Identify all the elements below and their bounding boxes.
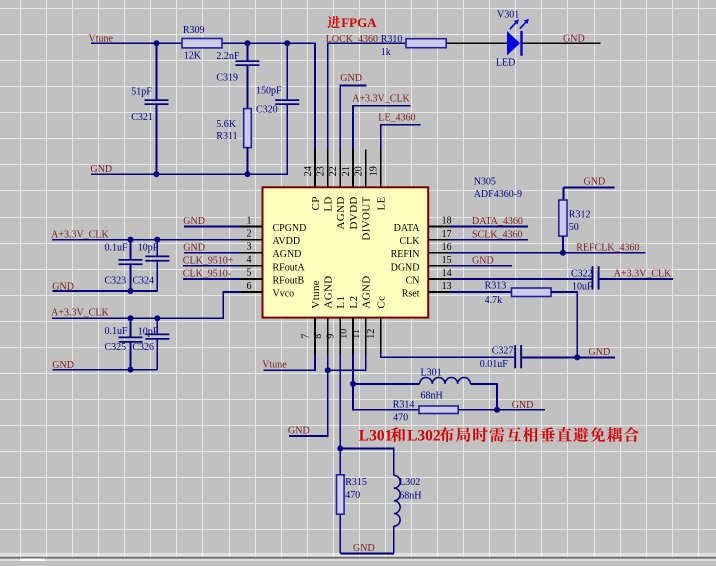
svg-text:23: 23	[316, 166, 327, 176]
svg-text:A+3.3V_CLK: A+3.3V_CLK	[614, 268, 672, 279]
annotation 进FPGA	[327, 16, 340, 28]
wire pin18	[450, 226, 528, 228]
svg-text:5.6K: 5.6K	[216, 119, 237, 130]
svg-text:AVDD: AVDD	[273, 236, 301, 247]
svg-text:L302: L302	[399, 477, 420, 488]
svg-text:R311: R311	[216, 131, 237, 142]
pin 23 LD	[327, 149, 329, 187]
svg-text:RFoutA: RFoutA	[273, 262, 306, 273]
pin 18 DATA	[428, 226, 450, 228]
svg-text:4: 4	[247, 255, 252, 266]
capacitor C324	[156, 240, 158, 291]
capacitor C321	[156, 43, 158, 174]
pin 6 Vvco	[241, 291, 263, 293]
svg-text:AGND: AGND	[273, 249, 302, 260]
wire Vtune/CP net	[91, 43, 315, 187]
svg-text:LE: LE	[376, 196, 388, 210]
capacitor C319	[247, 43, 249, 108]
svg-text:10uF: 10uF	[572, 282, 593, 293]
svg-text:CLK_9510-: CLK_9510-	[183, 269, 231, 280]
svg-text:15: 15	[442, 255, 452, 266]
svg-text:GND: GND	[584, 176, 606, 187]
pin 4 RFoutA	[241, 265, 263, 267]
svg-text:A+3.3V_CLK: A+3.3V_CLK	[51, 229, 109, 240]
svg-text:4.7k: 4.7k	[485, 295, 503, 306]
svg-text:20: 20	[354, 166, 365, 176]
svg-text:R313: R313	[485, 280, 507, 291]
svg-text:L301: L301	[421, 368, 442, 379]
svg-text:CPGND: CPGND	[273, 223, 307, 234]
svg-text:AGND: AGND	[361, 275, 373, 308]
svg-text:GND: GND	[512, 400, 534, 411]
svg-text:GND: GND	[353, 543, 375, 554]
wire GND rail 1	[52, 290, 157, 292]
wire GND rail top-left	[91, 105, 287, 174]
svg-text:L301: L301	[359, 428, 393, 445]
wire pin19 LE	[381, 125, 421, 188]
svg-text:150pF: 150pF	[256, 86, 282, 97]
wire pin21 DVDD	[353, 106, 411, 188]
wire pin14 to C322	[450, 278, 591, 280]
wire LD to R310	[328, 43, 406, 187]
pin 19 LE	[380, 149, 382, 187]
svg-text:C324: C324	[132, 276, 154, 287]
node C324 top junction	[154, 237, 160, 243]
svg-text:R310: R310	[381, 34, 403, 45]
resistor R315	[339, 449, 341, 554]
node C325 bottom junction	[128, 367, 134, 373]
svg-text:C319: C319	[216, 73, 238, 84]
svg-text:14: 14	[442, 268, 452, 279]
capacitor C323	[130, 240, 132, 291]
svg-text:DGND: DGND	[391, 262, 420, 273]
svg-text:AGND: AGND	[335, 196, 347, 229]
pin 8 AGND	[327, 318, 329, 355]
svg-text:2: 2	[247, 228, 252, 239]
svg-text:GND: GND	[589, 347, 611, 358]
wire R310 to LED	[446, 42, 507, 44]
pin 5 RFoutB	[241, 278, 263, 280]
pin 22 AGND	[339, 149, 341, 187]
IC N305 ADF4360-9	[263, 187, 429, 317]
node R312-REFIN junction	[560, 250, 566, 256]
pin 3 AGND	[241, 252, 263, 254]
node C323 top junction	[128, 237, 134, 243]
svg-text:N305: N305	[474, 177, 496, 188]
svg-text:5: 5	[247, 268, 252, 279]
wire pin3	[184, 252, 241, 254]
svg-text:10: 10	[338, 329, 349, 339]
svg-text:16: 16	[442, 242, 452, 253]
inductor L302	[340, 449, 394, 554]
wire pin10 L2 down	[353, 354, 419, 410]
pin 9 L1	[339, 318, 341, 355]
wire L301 right	[470, 384, 497, 410]
pin 14 CN	[428, 278, 450, 280]
wire C322 to A+3.3V_CLK	[600, 278, 673, 280]
pin 2 AVDD	[241, 239, 263, 241]
svg-text:L302: L302	[407, 428, 441, 445]
svg-text:GND: GND	[563, 34, 585, 45]
svg-text:C327: C327	[492, 345, 514, 356]
svg-text:11: 11	[351, 329, 362, 339]
svg-text:0.01uF: 0.01uF	[480, 359, 509, 370]
svg-text:LED: LED	[496, 58, 515, 69]
wire GND rail 2	[52, 369, 157, 371]
svg-text:CN: CN	[406, 275, 420, 286]
svg-text:GND: GND	[183, 242, 205, 253]
node pin8 junction	[325, 367, 331, 373]
pin 1 CPGND	[241, 226, 263, 228]
wire bottom GND rail	[340, 553, 394, 555]
svg-text:50: 50	[569, 222, 579, 233]
svg-text:R312: R312	[569, 210, 591, 221]
svg-text:R315: R315	[345, 477, 367, 488]
svg-text:DATA: DATA	[394, 223, 421, 234]
svg-text:10pF: 10pF	[138, 327, 159, 338]
pin 16 REFIN	[428, 252, 450, 254]
svg-text:C322: C322	[571, 268, 593, 279]
svg-text:A+3.3V_CLK: A+3.3V_CLK	[352, 94, 410, 105]
wire pin17	[450, 239, 528, 241]
svg-text:DIVOUT: DIVOUT	[361, 196, 373, 240]
svg-text:C320: C320	[256, 105, 278, 116]
svg-text:Cc: Cc	[376, 296, 388, 309]
wire R314 right to GND	[458, 409, 545, 411]
wire pin4	[183, 265, 241, 267]
svg-text:REFIN: REFIN	[391, 249, 420, 260]
svg-text:2.2nF: 2.2nF	[216, 51, 240, 62]
wire LED to GND	[523, 42, 601, 44]
svg-text:51pF: 51pF	[131, 87, 152, 98]
svg-text:22: 22	[328, 166, 339, 176]
svg-text:24: 24	[303, 166, 314, 176]
pin 15 DGND	[428, 265, 450, 267]
wire pin15	[450, 265, 512, 267]
svg-text:LE_4360: LE_4360	[378, 113, 415, 124]
svg-text:Vtune: Vtune	[310, 280, 322, 309]
svg-text:C325: C325	[105, 342, 127, 353]
svg-text:470: 470	[345, 490, 360, 501]
svg-text:18: 18	[442, 216, 452, 227]
wire pin12 Cc to C327	[381, 354, 514, 357]
svg-text:GND: GND	[340, 73, 362, 84]
svg-text:SCLK_4360: SCLK_4360	[472, 229, 523, 240]
svg-text:L1: L1	[335, 296, 347, 309]
node C323 bottom junction	[128, 288, 134, 294]
resistor R310	[406, 39, 446, 48]
LED V301	[507, 31, 520, 56]
svg-text:ADF4360-9: ADF4360-9	[474, 189, 522, 200]
svg-text:1k: 1k	[381, 47, 391, 58]
svg-text:Rset: Rset	[402, 289, 420, 300]
svg-text:21: 21	[341, 166, 352, 176]
wire pin9 L1 down	[339, 354, 341, 449]
svg-text:10pF: 10pF	[138, 243, 159, 254]
svg-text:19: 19	[369, 166, 380, 176]
pin 13 Rset	[428, 291, 450, 293]
wire pin16 REFIN	[450, 252, 646, 254]
pin 21 DVDD	[352, 149, 354, 187]
resistor R311	[244, 109, 252, 148]
wire R313 to C327 node	[551, 292, 577, 357]
svg-text:7: 7	[300, 334, 311, 339]
svg-text:CLK_9510+: CLK_9510+	[183, 256, 234, 267]
pin 24 CP	[314, 149, 316, 187]
svg-text:470: 470	[393, 413, 408, 424]
svg-text:68nH: 68nH	[421, 390, 443, 401]
pin 7 Vtune	[314, 318, 316, 355]
svg-text:R314: R314	[393, 399, 415, 410]
wire pin7 Vtune	[264, 354, 316, 370]
wire pin6 Vvco rail	[52, 292, 241, 318]
capacitor C322	[592, 266, 594, 289]
svg-text:C323: C323	[105, 276, 127, 287]
wire R312 top GND	[563, 188, 614, 201]
wire C327 to GND node	[522, 356, 615, 358]
resistor R309	[182, 39, 222, 48]
svg-text:A+3.3V_CLK: A+3.3V_CLK	[51, 307, 109, 318]
svg-text:68nH: 68nH	[399, 491, 421, 502]
svg-text:R309: R309	[183, 25, 205, 36]
wire pin2 AVDD rail	[52, 239, 241, 241]
node C321-GND junction	[154, 171, 160, 177]
sheet border	[0, 553, 716, 554]
node R314-L301 junction	[494, 407, 500, 413]
svg-text:CP: CP	[310, 196, 322, 210]
node C319 junction	[245, 40, 251, 46]
svg-text:13: 13	[442, 281, 452, 292]
wire pin5	[183, 278, 241, 280]
svg-text:C321: C321	[131, 112, 153, 123]
node C325 top junction	[128, 315, 134, 321]
svg-text:6: 6	[247, 281, 252, 292]
svg-text:CLK: CLK	[400, 236, 421, 247]
svg-text:GND: GND	[288, 426, 310, 437]
svg-text:C326: C326	[132, 342, 154, 353]
node pin9 junction	[337, 446, 343, 452]
resistor R312	[559, 200, 567, 236]
svg-text:FPGA: FPGA	[341, 15, 377, 30]
capacitor C327	[514, 345, 516, 368]
svg-text:RFoutB: RFoutB	[273, 275, 305, 286]
svg-text:V301: V301	[497, 10, 519, 21]
wire pin22 AGND	[340, 85, 366, 187]
svg-text:L2: L2	[348, 296, 360, 309]
pin 20 DIVOUT	[365, 149, 367, 187]
svg-text:DVDD: DVDD	[348, 196, 360, 229]
svg-text:1: 1	[247, 215, 252, 226]
svg-text:9: 9	[326, 334, 337, 339]
pin 12 Cc	[380, 318, 382, 355]
svg-text:3: 3	[247, 242, 252, 253]
capacitor C320	[286, 43, 288, 99]
wire pin1	[184, 226, 241, 228]
inductor L301	[353, 383, 420, 385]
svg-text:DATA_4360: DATA_4360	[472, 216, 523, 227]
svg-text:12: 12	[366, 329, 377, 339]
svg-text:17: 17	[442, 229, 452, 240]
svg-text:8: 8	[313, 334, 324, 339]
node C320 junction	[284, 40, 290, 46]
node R311-GND junction	[245, 171, 251, 177]
wire pin8-pin11 AGND	[289, 354, 366, 436]
node pin10 junction	[350, 381, 356, 387]
node C326 top junction	[154, 315, 160, 321]
pin 10 L2	[352, 318, 354, 355]
svg-text:AGND: AGND	[323, 275, 335, 308]
pin 20 stub	[365, 149, 367, 187]
pin 17 CLK	[428, 239, 450, 241]
svg-text:0.1uF: 0.1uF	[105, 243, 129, 254]
svg-text:LD: LD	[323, 196, 335, 211]
capacitor C326	[156, 318, 158, 369]
svg-text:12K: 12K	[184, 51, 202, 62]
svg-text:GND: GND	[183, 216, 205, 227]
svg-text:Vtune: Vtune	[262, 360, 287, 371]
node C327 junction	[574, 354, 580, 360]
node C321 junction	[154, 40, 160, 46]
svg-text:0.1uF: 0.1uF	[105, 326, 129, 337]
svg-text:Vvco: Vvco	[273, 289, 295, 300]
pin 11 AGND	[365, 318, 367, 355]
capacitor C325	[130, 318, 132, 369]
